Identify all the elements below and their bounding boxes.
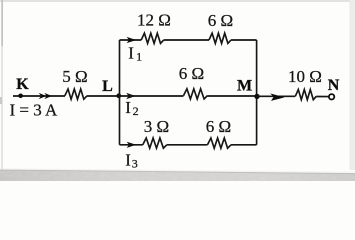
resistor 6 ohm top	[209, 33, 231, 43]
wire L to 6-ohm middle	[120, 95, 184, 97]
resistor 3 ohm	[143, 138, 167, 148]
svg-text:10 Ω: 10 Ω	[288, 67, 322, 86]
resistor 6 ohm bottom	[208, 138, 232, 148]
svg-text:12 Ω: 12 Ω	[137, 11, 171, 30]
wire top branch 12-ohm to 6-ohm	[164, 39, 209, 41]
current arrow I1	[127, 37, 137, 43]
svg-text:6 Ω: 6 Ω	[179, 64, 204, 83]
wire bottom branch L-corner to 3-ohm	[120, 144, 143, 146]
current arrow I2	[126, 93, 136, 99]
wire 5-ohm to L	[87, 95, 120, 97]
current arrow at M	[270, 93, 284, 101]
wire L vertical	[119, 40, 121, 145]
svg-text:6 Ω: 6 Ω	[208, 11, 233, 30]
node M junction dot	[254, 94, 259, 99]
svg-text:M: M	[237, 77, 252, 94]
resistor 5 ohm	[65, 89, 87, 99]
svg-text:5 Ω: 5 Ω	[62, 67, 87, 86]
wire top branch 6-ohm to M-corner	[231, 39, 257, 41]
svg-text:K: K	[16, 76, 29, 93]
wire M vertical	[256, 40, 258, 145]
resistor 12 ohm	[141, 33, 164, 43]
resistor 10 ohm	[295, 90, 316, 100]
wire bottom branch 6-ohm to M-corner	[231, 144, 257, 146]
svg-text:6 Ω: 6 Ω	[206, 117, 231, 136]
resistor 6 ohm middle	[184, 89, 208, 99]
node K terminal dot	[18, 94, 23, 99]
node L junction dot	[116, 93, 121, 98]
wire 6-ohm middle to M	[208, 95, 257, 97]
wire bottom branch 3-ohm to 6-ohm	[167, 144, 208, 146]
wire K stub to 5-ohm	[13, 95, 65, 97]
wire 10-ohm to N	[316, 96, 328, 98]
svg-text:I = 3 A: I = 3 A	[10, 101, 59, 120]
current arrow I3	[127, 142, 137, 148]
current arrow I at K (double head)	[39, 93, 46, 99]
wire M to 10-ohm	[257, 95, 296, 97]
node N open terminal	[329, 94, 334, 99]
wire top branch L-corner to 12-ohm	[120, 39, 142, 41]
svg-text:3 Ω: 3 Ω	[144, 117, 169, 136]
svg-text:N: N	[328, 77, 340, 94]
svg-text:L: L	[102, 78, 113, 95]
